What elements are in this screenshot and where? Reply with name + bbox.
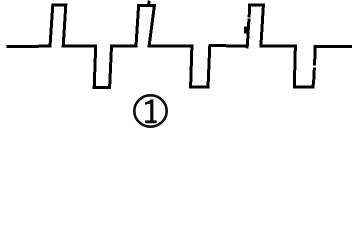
wire: waveform trace period 1 and 2 [8, 5, 247, 88]
wire: pulse 3 rising edge broken segment a [246, 40, 249, 47]
wire: waveform trace period 3 top and down pulse [249, 5, 313, 87]
node 1: digit 1 glyph [145, 99, 157, 123]
wire: pulse 3 rising edge broken segment c [247, 20, 250, 26]
wire: down pulse 3 rising edge broken segment b [313, 49, 317, 64]
wire: pulse 3 rising edge stray dash [244, 28, 247, 32]
wire: right baseline segment [315, 45, 350, 48]
wire: down pulse 3 rising edge broken segment a [312, 69, 315, 78]
node 1: circled waveform label [134, 95, 166, 126]
wire: pulse 3 rising edge broken segment b [246, 29, 250, 38]
wire: pen tick above pulse 2 [147, 2, 150, 5]
